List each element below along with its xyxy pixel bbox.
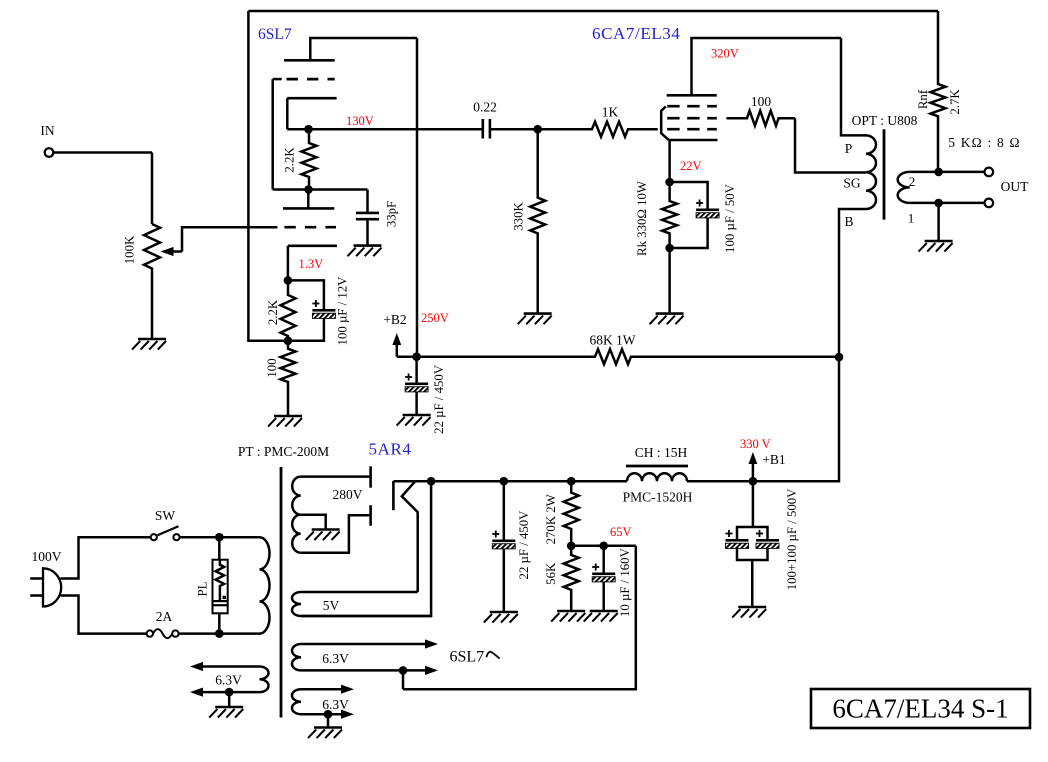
ground pot [132, 339, 166, 350]
label 280V [333, 487, 363, 502]
wire switch to primary [180, 536, 260, 539]
svg-text:IN: IN [40, 123, 54, 138]
choke CH core bar [626, 465, 688, 468]
title text [832, 694, 1008, 724]
label 33pF [385, 201, 399, 227]
svg-text:2: 2 [909, 174, 916, 189]
node divider mid [567, 542, 576, 551]
svg-text:280V: 280V [333, 487, 363, 502]
label 100K [123, 235, 137, 264]
label 100+100uF/500V [785, 488, 799, 590]
node +B1 [749, 477, 758, 486]
OPT primary winding [866, 135, 876, 209]
node 6.3V A junction [399, 666, 408, 689]
svg-text:33pF: 33pF [385, 201, 399, 227]
pentode V2 cathode [668, 140, 717, 182]
pentode V2 grid2 screen [667, 117, 717, 120]
label 10uF/160V [618, 547, 632, 617]
label 320V [711, 47, 739, 61]
label 6.3V B [322, 697, 349, 712]
node PL top [215, 533, 224, 542]
capacitor 22uF/450V psu [492, 481, 515, 612]
svg-text:250V: 250V [421, 311, 449, 325]
label 22uF/450V B2 [432, 364, 446, 434]
svg-text:100K: 100K [123, 235, 137, 264]
wire 6.3V B to ground [327, 714, 330, 727]
label 270K 2W [544, 493, 558, 544]
svg-text:OPT : U808: OPT : U808 [852, 113, 918, 128]
svg-text:0.22: 0.22 [473, 100, 497, 115]
label OUT [1001, 179, 1029, 194]
svg-text:P: P [845, 141, 853, 156]
ground 22uF psu [484, 612, 518, 623]
svg-text:22 µF / 450V: 22 µF / 450V [517, 510, 531, 580]
ground 6.3V B [308, 728, 342, 739]
label 68K 1W [589, 333, 635, 348]
label 6CA7/EL34 [592, 24, 681, 43]
wire 6.3V left top [190, 662, 260, 671]
label 2.2K srpp [283, 147, 297, 173]
wire 320V to OPT P [841, 38, 866, 135]
wire 6.3V B top [301, 685, 354, 694]
label B [844, 214, 853, 229]
svg-text:Rk 330Ω 10W: Rk 330Ω 10W [635, 180, 649, 256]
wire 280V top lead [301, 475, 370, 478]
capacitor 100uF/12V [288, 280, 336, 340]
triode U1a plate [284, 38, 417, 60]
wire 6.3V A top [301, 639, 438, 648]
wire rail choke to B1 [687, 480, 753, 483]
node V2 cathode top [665, 178, 674, 187]
label 5V [323, 598, 340, 613]
terminal OUT hot [985, 168, 994, 177]
PT 5V winding [292, 592, 301, 616]
wire input to pot [151, 153, 154, 225]
label CH 15H [635, 445, 688, 460]
label 22uF/450V psu [517, 510, 531, 580]
switch SW [151, 526, 180, 540]
resistor 100 screen [726, 111, 795, 126]
node srpp junction [304, 185, 313, 194]
wire divider to 65V [571, 545, 636, 548]
label 56K [544, 562, 558, 585]
wire 6.3V A bottom [301, 666, 438, 675]
label Rnf [916, 89, 930, 109]
wire screen to SG tap [795, 118, 866, 172]
svg-text:1: 1 [908, 211, 915, 226]
label PT PMC-200M [238, 444, 329, 459]
node grid junction [533, 125, 542, 134]
label 6SL7-he [450, 649, 500, 666]
wire 280V bottom lead [301, 515, 370, 552]
label P [845, 141, 853, 156]
PT 280V winding [292, 477, 301, 553]
svg-text:270K 2W: 270K 2W [544, 493, 558, 544]
node 130V plate junction [304, 125, 313, 134]
pentode V2 plate [667, 38, 841, 95]
label 330K [512, 202, 526, 231]
ground Rk [650, 314, 684, 325]
label SG [843, 176, 861, 191]
svg-text:2.2K: 2.2K [283, 147, 297, 173]
resistor 2.2K srpp [302, 129, 317, 189]
node rail cap1 [500, 477, 509, 486]
svg-text:22 µF / 450V: 22 µF / 450V [432, 364, 446, 434]
node PL bottom [215, 629, 224, 638]
choke CH winding [627, 473, 687, 481]
label 2.7K [948, 89, 962, 115]
svg-text:100V: 100V [32, 549, 62, 564]
label 100uF/50V [723, 183, 737, 253]
label Rk 330 10W [635, 180, 649, 256]
svg-text:56K: 56K [544, 562, 558, 585]
node U1b cathode junction [284, 276, 293, 285]
ground 10uF [584, 611, 618, 622]
ground 280V center tap [306, 530, 340, 541]
svg-text:PL: PL [196, 581, 210, 596]
PT primary winding [260, 537, 270, 633]
ground 100 resistor [268, 416, 302, 427]
svg-text:1K: 1K [602, 105, 619, 120]
label 65V [610, 525, 632, 539]
wire 6.3V left bottom [190, 688, 260, 697]
svg-text:6.3V: 6.3V [322, 651, 349, 666]
label 250V [421, 311, 449, 325]
label 5K 8ohm [948, 135, 1021, 150]
wire 5V top lead [301, 591, 418, 594]
ground 330K [518, 314, 552, 325]
wire 6.3V left to ground [228, 692, 231, 707]
svg-text:100: 100 [751, 94, 772, 109]
wire secondary top [910, 171, 985, 174]
label IN [40, 123, 54, 138]
ground 33pF [348, 246, 382, 257]
svg-text:5AR4: 5AR4 [369, 440, 412, 459]
ground 56K [551, 611, 585, 622]
PT 6.3V winding left [260, 667, 269, 693]
svg-text:330K: 330K [512, 202, 526, 231]
PT 6.3V winding B [292, 689, 301, 714]
svg-text:SW: SW [155, 508, 176, 523]
svg-text:+B1: +B1 [762, 452, 785, 467]
svg-text:2.2K: 2.2K [266, 299, 280, 325]
wire 5V return [301, 481, 431, 616]
wire plug top [61, 537, 151, 578]
triode U1b cathode [288, 246, 337, 281]
svg-text:5V: 5V [323, 598, 340, 613]
wire 280V center tap [301, 515, 326, 530]
svg-text:10 µF / 160V: 10 µF / 160V [618, 547, 632, 617]
resistor 270K 2W [564, 481, 579, 546]
OPT secondary winding [898, 172, 910, 203]
wire fuse to primary [179, 632, 260, 635]
ground secondary [919, 241, 953, 252]
node B2 [412, 352, 421, 361]
capacitor 100uF/50V [670, 182, 720, 248]
svg-text:6CA7/EL34: 6CA7/EL34 [592, 24, 681, 43]
wire 5V bottom lead [301, 615, 431, 618]
label 6.3V left [215, 673, 242, 688]
label 130V [346, 114, 374, 128]
pentode V2 grid1 [667, 128, 717, 131]
wire rectifier rail [393, 480, 627, 483]
ground 22uF B2 [397, 415, 431, 426]
triode U1b grid [284, 226, 336, 229]
capacitor 0.22 [483, 119, 538, 139]
svg-text:B: B [844, 214, 853, 229]
svg-text:6SL7: 6SL7 [258, 26, 292, 43]
node secondary bottom [934, 199, 943, 208]
label 100 screen [751, 94, 772, 109]
svg-text:22V: 22V [680, 159, 702, 173]
pentode V2 grid3 [667, 105, 717, 108]
wire feedback rail left [248, 11, 288, 341]
label 6SL7 [258, 26, 292, 43]
resistor 1K [538, 122, 658, 137]
label 2 [909, 174, 916, 189]
svg-text:6.3V: 6.3V [215, 673, 242, 688]
arrow +B1 [749, 452, 758, 481]
resistor 330K [530, 129, 545, 313]
svg-text:PT : PMC-200M: PT : PMC-200M [238, 444, 329, 459]
resistor 100 feedback [281, 341, 296, 415]
label 22V [680, 159, 702, 173]
wire junction to 33pF [273, 188, 368, 191]
node V2 cathode bottom [665, 244, 674, 253]
wire 130V node line [287, 128, 482, 131]
plug 100V [30, 568, 61, 606]
node feedback junction [284, 337, 293, 346]
svg-text:6.3V: 6.3V [322, 697, 349, 712]
label PMC-1520H [623, 490, 693, 505]
svg-text:2A: 2A [156, 609, 173, 624]
wire top B rail [248, 10, 938, 13]
svg-text:6CA7/EL34 S-1: 6CA7/EL34 S-1 [832, 694, 1008, 724]
svg-text:OUT: OUT [1001, 179, 1029, 194]
wire B2 vertical [416, 38, 419, 357]
resistor Rnf 2.7K [931, 11, 946, 172]
pentode V2 envelope [661, 107, 668, 140]
wire plug bottom [61, 596, 147, 634]
label 1 [908, 211, 915, 226]
triode U1a cathode [287, 98, 336, 129]
svg-text:2.7K: 2.7K [948, 89, 962, 115]
title box [811, 689, 1030, 728]
svg-text:100: 100 [265, 358, 279, 377]
svg-text:SG: SG [843, 176, 861, 191]
rectifier plate 1 [369, 466, 372, 487]
node 68K right [835, 353, 844, 362]
label 1K [602, 105, 619, 120]
node 6.3V B junction [324, 710, 333, 719]
label 0.22 [473, 100, 497, 115]
label SW [155, 508, 176, 523]
svg-text:130V: 130V [346, 114, 374, 128]
wire secondary to ground [937, 203, 940, 241]
capacitor 33pF [356, 190, 379, 246]
label 5AR4 [369, 440, 412, 459]
label 100 feedback [265, 358, 279, 377]
arrow +B2 [392, 333, 416, 357]
rectifier cathode [392, 481, 395, 510]
PT core [280, 467, 283, 718]
node 6.3V left junction [225, 688, 234, 697]
resistor Rk 330ohm [662, 182, 677, 248]
triode U1a grid [273, 78, 335, 81]
node secondary top [934, 168, 943, 177]
svg-text:CH : 15H: CH : 15H [635, 445, 688, 460]
rectifier filament [402, 481, 418, 592]
svg-text:68K 1W: 68K 1W [589, 333, 635, 348]
wire U1a grid to junction [271, 79, 274, 189]
svg-text:+B2: +B2 [383, 312, 406, 327]
label OPT U808 [852, 113, 918, 128]
PT 6.3V winding A [292, 644, 301, 670]
svg-text:65V: 65V [610, 525, 632, 539]
svg-text:100+100 µF / 500V: 100+100 µF / 500V [785, 488, 799, 590]
label 2A [156, 609, 173, 624]
wire 6.3V B bottom [301, 710, 354, 719]
label 6.3V A [322, 651, 349, 666]
label 2.2K cathode [266, 299, 280, 325]
ground 100+100uF [732, 607, 766, 618]
potentiometer 100K [144, 224, 160, 338]
label 100V [32, 549, 62, 564]
terminal OUT gnd [985, 199, 994, 208]
resistor 68K 1W [417, 349, 839, 364]
resistor 56K [564, 546, 579, 611]
resistor 2.2K cathode [281, 280, 296, 340]
ground 6.3V left [209, 707, 243, 718]
label +B2 [383, 312, 406, 327]
capacitor 22uF/450V B2 [405, 357, 428, 415]
svg-text:100 µF / 50V: 100 µF / 50V [723, 183, 737, 253]
svg-text:330 V: 330 V [740, 437, 771, 451]
wire Rk to ground [668, 248, 671, 314]
fuse 2A [147, 629, 179, 638]
label 330V [740, 437, 771, 451]
svg-text:PMC-1520H: PMC-1520H [623, 490, 693, 505]
node IN input terminal [45, 148, 152, 157]
svg-text:5 KΩ : 8 Ω: 5 KΩ : 8 Ω [948, 135, 1021, 150]
svg-text:Rnf: Rnf [916, 89, 930, 109]
node rail divider [567, 477, 576, 486]
wire 65V to heater [403, 546, 636, 689]
capacitor 10uF/160V [592, 546, 615, 611]
triode U1b plate [283, 190, 334, 209]
node rail 5V return [427, 477, 436, 486]
pilot lamp PL [213, 537, 228, 633]
svg-text:1.3V: 1.3V [299, 257, 324, 271]
svg-text:100 µF / 12V: 100 µF / 12V [335, 276, 349, 346]
label 1.3V [299, 257, 324, 271]
wire OPT B lead [753, 209, 866, 481]
wiper arrow of pot [161, 227, 278, 256]
label PL [196, 581, 210, 596]
node 65V [599, 542, 608, 551]
wire secondary bottom [910, 202, 985, 205]
OPT core [883, 129, 886, 219]
svg-text:6SL7: 6SL7 [450, 649, 485, 666]
svg-text:320V: 320V [711, 47, 739, 61]
capacitor 100+100uF/500V [726, 481, 780, 607]
label +B1 [762, 452, 785, 467]
rectifier plate 2 [369, 505, 372, 526]
label 100uF/12V [335, 276, 349, 346]
